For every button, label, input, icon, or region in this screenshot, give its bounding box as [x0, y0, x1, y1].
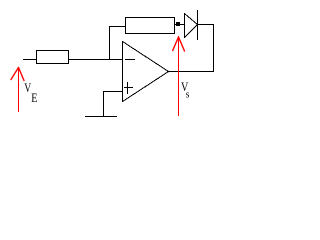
svg-text:s: s	[186, 89, 190, 101]
svg-text:E: E	[31, 91, 37, 105]
